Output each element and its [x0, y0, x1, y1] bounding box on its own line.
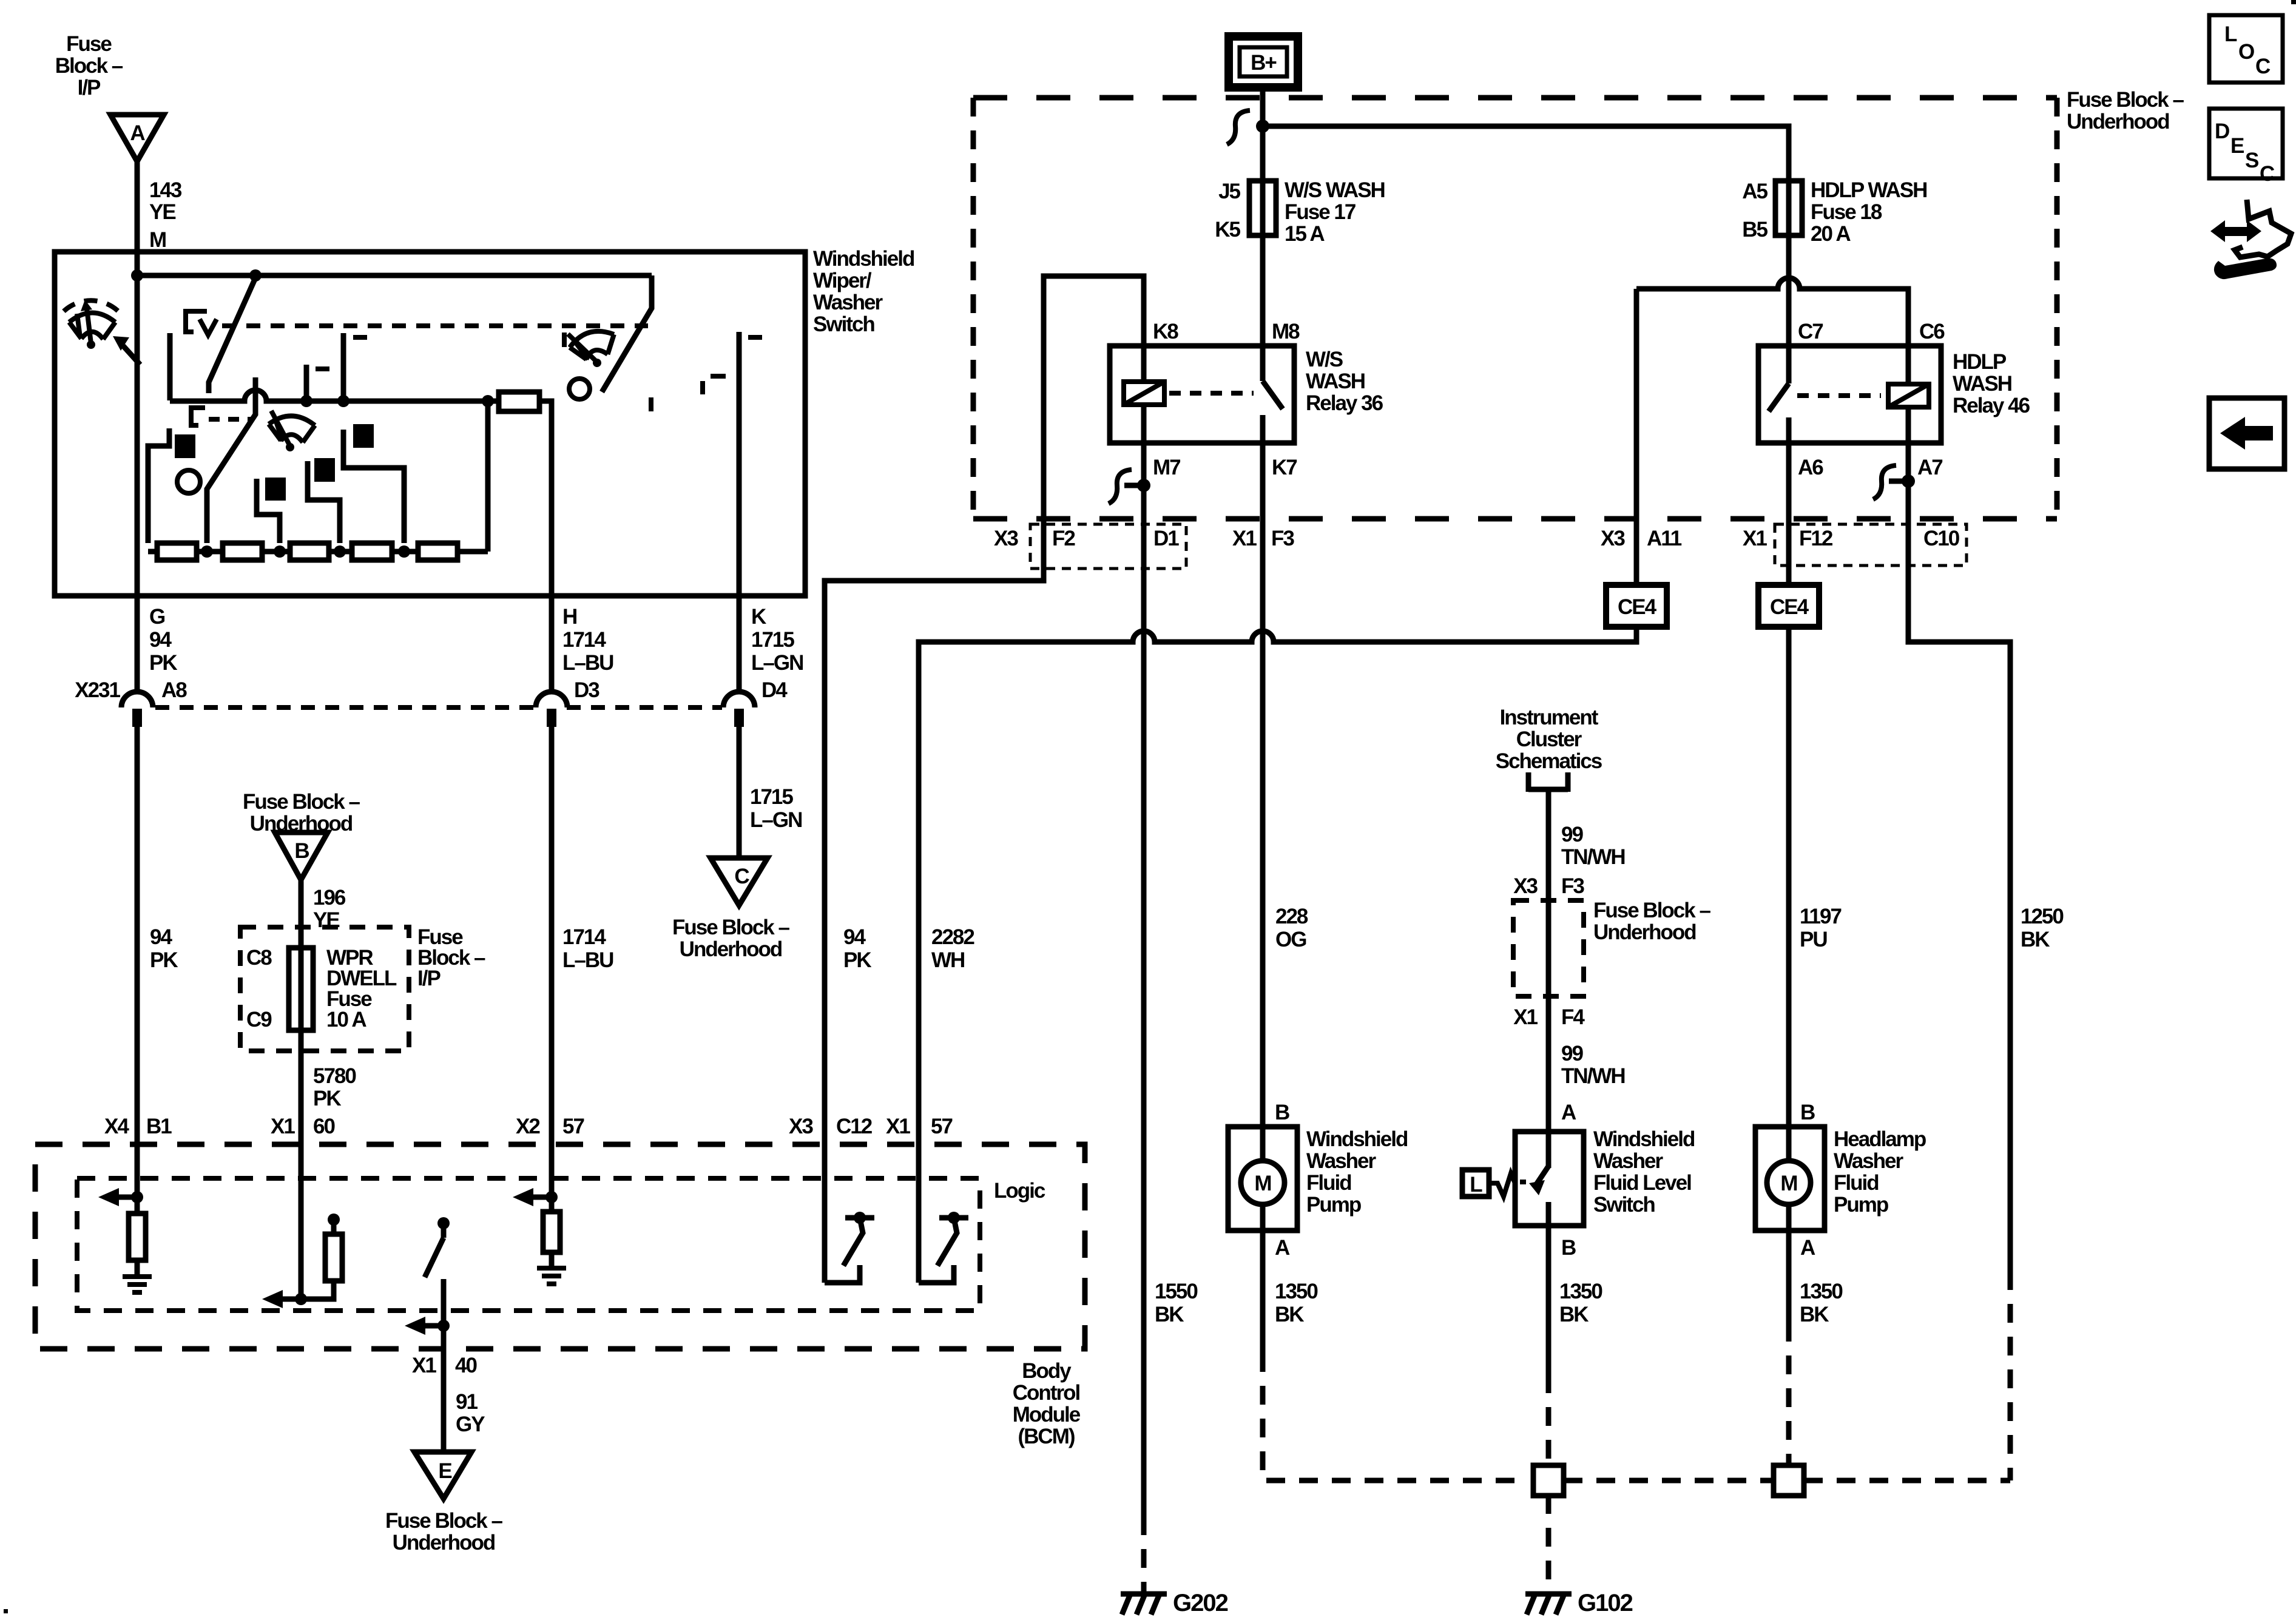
svg-text:B1: B1 [146, 1115, 172, 1138]
svg-text:F3: F3 [1271, 527, 1294, 550]
resistor chain R1 [157, 543, 197, 560]
svg-text:I/P: I/P [417, 967, 441, 990]
ground [537, 1268, 566, 1284]
svg-text:I/P: I/P [78, 76, 101, 100]
wire resistor bottom to node [301, 1281, 334, 1299]
relay 36 link dashes [1169, 391, 1254, 396]
contact stub x505 with tick [304, 365, 309, 400]
svg-text:1350: 1350 [1800, 1280, 1843, 1303]
dashed mechanical link lower [209, 417, 252, 422]
resistor chain R2 [223, 543, 262, 560]
svg-text:A6: A6 [1798, 456, 1823, 479]
fuse HDLP WASH Fuse 18 20A [1786, 181, 1792, 235]
svg-text:Fuse: Fuse [66, 32, 112, 56]
node B+ split [1256, 120, 1269, 133]
node [295, 1293, 307, 1305]
svg-text:BK: BK [2021, 928, 2050, 951]
svg-text:Washer: Washer [813, 291, 883, 314]
svg-text:1715: 1715 [750, 785, 793, 809]
dashed drop to G102 [1546, 1495, 1551, 1592]
wire resistor to H column [539, 401, 552, 596]
svg-text:X1: X1 [1743, 527, 1767, 550]
svg-text:F4: F4 [1561, 1005, 1585, 1029]
svg-text:1714: 1714 [562, 628, 606, 652]
CE4 box 1 [1606, 585, 1667, 627]
fuse WPR DWELL 10A [289, 948, 313, 1030]
svg-text:C6: C6 [1919, 320, 1945, 343]
stub with node [331, 1221, 337, 1234]
node bus x804 [482, 395, 494, 407]
svg-text:Pump: Pump [1306, 1193, 1361, 1217]
dashed ground path washer pump [1263, 1353, 1521, 1480]
svg-text:Pump: Pump [1834, 1193, 1888, 1217]
resistor [129, 1214, 146, 1260]
svg-text:Instrument: Instrument [1500, 706, 1599, 729]
svg-text:Washer: Washer [1306, 1149, 1377, 1173]
B+ terminal box [1229, 36, 1298, 87]
ground [123, 1277, 152, 1292]
svg-text:S: S [2245, 149, 2258, 172]
svg-text:1550: 1550 [1155, 1280, 1198, 1303]
headlamp washer fluid pump box [1755, 1127, 1825, 1230]
svg-text:5780: 5780 [313, 1064, 356, 1088]
svg-text:A5: A5 [1742, 180, 1768, 203]
fuse block I/P dashed box [240, 927, 409, 1051]
svg-text:Fuse 18: Fuse 18 [1811, 200, 1882, 224]
wire 94 PK down to BCM [135, 726, 140, 1144]
windshield washer fluid level switch box [1515, 1132, 1584, 1226]
svg-text:X3: X3 [1513, 874, 1538, 898]
svg-text:57: 57 [931, 1115, 952, 1138]
dashed tail of 1550 BK [1141, 1516, 1147, 1592]
connector triangle C (Fuse Block Underhood) [711, 858, 768, 905]
svg-text:X1: X1 [886, 1115, 910, 1138]
svg-text:HDLP: HDLP [1953, 350, 2007, 374]
svg-text:OG: OG [1275, 928, 1306, 951]
svg-text:Relay 46: Relay 46 [1953, 394, 2030, 417]
dashed mechanical link upper [222, 323, 648, 328]
svg-text:Logic: Logic [994, 1179, 1045, 1203]
svg-text:B5: B5 [1742, 218, 1768, 241]
svg-text:(BCM): (BCM) [1018, 1425, 1074, 1448]
svg-text:10 A: 10 A [326, 1008, 366, 1031]
svg-text:C7: C7 [1798, 320, 1823, 343]
wire chain riser to bus [485, 401, 491, 552]
connector triangle A (Fuse Block I/P) [110, 115, 164, 161]
BCM branch 40: switch [437, 1217, 450, 1229]
svg-text:D1: D1 [1153, 527, 1179, 550]
svg-text:D4: D4 [761, 678, 788, 702]
switch blade upper middle [209, 278, 255, 393]
wire middle bus with hop [170, 390, 499, 401]
pullup resistor [325, 1234, 342, 1281]
svg-text:E: E [2230, 134, 2244, 158]
arrow out left [531, 1195, 552, 1200]
svg-text:99: 99 [1561, 1042, 1583, 1065]
dashed wire pump to square [1786, 1323, 1792, 1466]
svg-text:M8: M8 [1272, 320, 1300, 343]
svg-text:C: C [2255, 55, 2271, 78]
svg-text:M7: M7 [1153, 456, 1180, 479]
svg-text:M: M [149, 228, 166, 252]
svg-text:Body: Body [1022, 1359, 1072, 1383]
svg-text:Schematics: Schematics [1496, 749, 1602, 773]
svg-text:X3: X3 [789, 1115, 813, 1138]
fuse block underhood dashed box [973, 98, 2057, 519]
svg-text:BK: BK [1800, 1303, 1829, 1326]
svg-text:X3: X3 [1601, 527, 1625, 550]
relay HDLP WASH Relay 46 box [1758, 346, 1941, 443]
svg-text:PU: PU [1800, 928, 1827, 951]
svg-text:X3: X3 [994, 527, 1018, 550]
svg-text:B: B [294, 839, 309, 863]
contact circle left low [177, 470, 200, 493]
svg-text:1715: 1715 [751, 628, 794, 652]
resistor chain R4 [352, 543, 392, 560]
svg-text:94: 94 [150, 925, 172, 949]
svg-text:L–BU: L–BU [562, 948, 613, 972]
switch blade mode select (left) [123, 346, 140, 365]
connector triangle B (Fuse Block Underhood) [275, 832, 328, 880]
wire headlamp pump A down [1786, 1230, 1792, 1323]
contact lead 4 [343, 430, 404, 543]
svg-text:Underhood: Underhood [393, 1531, 495, 1555]
svg-text:1197: 1197 [1800, 905, 1841, 928]
wire fuse18 to relay C7 [1786, 235, 1792, 346]
svg-text:M: M [1254, 1172, 1271, 1195]
LOC icon box [2209, 15, 2283, 83]
svg-text:YE: YE [149, 200, 175, 224]
svg-text:CE4: CE4 [1618, 595, 1657, 619]
svg-text:A11: A11 [1647, 527, 1682, 550]
svg-text:TN/WH: TN/WH [1561, 1064, 1625, 1088]
connector dashed box F12-C10 [1775, 524, 1967, 565]
svg-text:Fuse Block –: Fuse Block – [385, 1509, 502, 1533]
svg-text:1350: 1350 [1275, 1280, 1318, 1303]
wiper icon middle [269, 411, 315, 451]
svg-text:Fluid: Fluid [1834, 1171, 1879, 1195]
svg-text:60: 60 [313, 1115, 335, 1138]
svg-text:196: 196 [313, 886, 346, 910]
wire A6 down to CE4 [1786, 443, 1792, 585]
wire 99 TN/WH upper [1546, 789, 1551, 900]
connector triangle E (Fuse Block Underhood) [414, 1452, 471, 1499]
wire K8 feed: up, left, down [825, 276, 1144, 1144]
contact lead 3 [308, 461, 340, 543]
svg-text:W/S WASH: W/S WASH [1285, 178, 1385, 202]
position square 3 [314, 458, 335, 482]
wire through pump [1786, 1127, 1792, 1230]
wire level switch B down [1546, 1226, 1551, 1374]
arrow out left [423, 1323, 444, 1329]
svg-text:A8: A8 [161, 678, 187, 702]
svg-text:G202: G202 [1173, 1590, 1228, 1616]
position square 1 [175, 434, 195, 458]
svg-text:D: D [2215, 120, 2229, 143]
svg-text:94: 94 [149, 628, 172, 652]
dashed bus square2 to 1250BK wire [1804, 1478, 2010, 1484]
svg-text:228: 228 [1275, 905, 1308, 928]
svg-text:F3: F3 [1561, 874, 1584, 898]
svg-text:99: 99 [1561, 823, 1583, 846]
svg-text:Switch: Switch [1593, 1193, 1655, 1217]
svg-text:X1: X1 [1513, 1005, 1538, 1029]
svg-text:TN/WH: TN/WH [1561, 845, 1625, 869]
wire K column [737, 596, 742, 692]
svg-text:B+: B+ [1251, 51, 1277, 75]
connector dashed box F2-D1 [1030, 524, 1186, 569]
wire top feed bus [137, 273, 652, 279]
wire main vertical 143YE/G through switch box [135, 252, 140, 596]
svg-text:2282: 2282 [931, 925, 974, 949]
svg-text:W/S: W/S [1306, 348, 1343, 371]
splice on A7 [1889, 479, 1908, 484]
scan artifact top right [2291, 0, 2296, 4]
BCM branch B1: wire [135, 1144, 140, 1214]
motor circle M [1767, 1161, 1811, 1204]
wire 1714 L-BU down to BCM [549, 726, 555, 1144]
svg-text:Underhood: Underhood [1593, 920, 1696, 944]
cam detent symbol upper [186, 311, 207, 332]
resistor chain R5 [418, 543, 458, 560]
svg-text:K8: K8 [1153, 320, 1178, 343]
svg-text:F2: F2 [1052, 527, 1075, 550]
dashed wire to G102 bus [1546, 1374, 1551, 1466]
motor circle M [1241, 1161, 1285, 1204]
svg-text:G: G [149, 605, 165, 629]
svg-text:L: L [2224, 22, 2237, 46]
wire 1715 L-GN to triangle C [737, 726, 742, 858]
level sensor L box [1462, 1170, 1489, 1197]
svg-text:D3: D3 [574, 678, 599, 702]
svg-text:1714: 1714 [562, 925, 606, 949]
svg-text:WH: WH [931, 948, 964, 972]
wire CE4-2 down to headlamp pump [1786, 627, 1792, 1127]
svg-text:A: A [1561, 1101, 1576, 1124]
svg-text:Fuse Block –: Fuse Block – [243, 790, 360, 814]
wiper icon left (intermittent, dashed dome) [69, 308, 115, 343]
node bus x566 [337, 395, 349, 407]
position square 4 [353, 424, 374, 448]
CE4 box 2 [1758, 585, 1819, 627]
svg-text:WASH: WASH [1953, 372, 2011, 396]
svg-text:X1: X1 [271, 1115, 295, 1138]
node feed junction [131, 269, 143, 282]
svg-text:X231: X231 [75, 678, 120, 702]
svg-text:Block –: Block – [55, 54, 123, 78]
svg-text:X2: X2 [516, 1115, 540, 1138]
svg-text:C10: C10 [1923, 527, 1960, 550]
arrow out left [280, 1297, 301, 1302]
wire G column [135, 596, 140, 692]
svg-text:H: H [562, 605, 576, 629]
svg-text:Control: Control [1013, 1381, 1080, 1405]
svg-text:91: 91 [456, 1390, 478, 1414]
svg-text:C12: C12 [836, 1115, 873, 1138]
fuse W/S WASH Fuse 17 15A [1260, 181, 1266, 235]
junction square G102-1 [1533, 1465, 1564, 1496]
svg-text:Windshield: Windshield [1593, 1127, 1695, 1151]
svg-text:Windshield: Windshield [1306, 1127, 1408, 1151]
cam detent symbol lower [191, 408, 205, 425]
connector bump D3 [536, 692, 567, 727]
wire top feed to HDLP fuse [1263, 126, 1789, 181]
ground G202 [1121, 1594, 1167, 1615]
svg-text:Wiper/: Wiper/ [813, 269, 872, 292]
svg-text:O: O [2238, 40, 2254, 64]
connector bump X231/A8 [121, 692, 153, 727]
wiper icon upper right [566, 320, 622, 373]
svg-text:BK: BK [1155, 1303, 1184, 1326]
svg-text:C: C [734, 865, 749, 888]
windshield washer fluid pump box [1228, 1127, 1297, 1230]
node [545, 1191, 558, 1203]
svg-text:57: 57 [562, 1115, 584, 1138]
svg-text:L–GN: L–GN [751, 651, 803, 675]
ground G102 [1525, 1594, 1572, 1615]
svg-text:L–GN: L–GN [750, 808, 802, 832]
svg-text:94: 94 [843, 925, 866, 949]
position square 2 [265, 478, 286, 501]
splice curl at B+ node [1227, 110, 1250, 144]
svg-text:Fuse 17: Fuse 17 [1285, 200, 1356, 224]
svg-text:C: C [2260, 162, 2275, 186]
svg-text:GY: GY [456, 1413, 485, 1436]
svg-text:A: A [130, 121, 145, 145]
svg-text:Fuse Block –: Fuse Block – [2067, 88, 2184, 112]
relay 46 link dashes [1797, 393, 1881, 398]
wire B+ down [1260, 87, 1266, 181]
wire fuse17 to relay M8 [1260, 235, 1266, 346]
node bus x505 [300, 395, 312, 407]
wire A11/C6 feed [1636, 278, 1908, 346]
relay 46 switch [1786, 346, 1792, 383]
svg-text:15 A: 15 A [1285, 222, 1325, 246]
contact lead left (to chain) [148, 428, 169, 543]
svg-text:M: M [1780, 1172, 1797, 1195]
svg-text:Cluster: Cluster [1516, 727, 1582, 751]
dashed splice line X231 [155, 705, 536, 710]
svg-text:1250: 1250 [2021, 905, 2064, 928]
svg-text:Fluid Level: Fluid Level [1593, 1171, 1691, 1195]
resistor [543, 1212, 560, 1252]
svg-text:PK: PK [843, 948, 871, 972]
svg-text:X1: X1 [412, 1354, 436, 1377]
contact stub x566 with tick [341, 333, 346, 400]
node chain j2 [274, 545, 286, 558]
relay 46 coil [1888, 384, 1929, 407]
svg-text:CE4: CE4 [1770, 595, 1809, 619]
arrow out left [116, 1195, 137, 1200]
wire 196 YE [299, 880, 304, 1144]
svg-text:HDLP WASH: HDLP WASH [1811, 178, 1926, 202]
node chain j1 [201, 545, 213, 558]
misc position tick c [700, 381, 705, 394]
svg-text:Relay 36: Relay 36 [1306, 391, 1383, 415]
svg-text:E: E [438, 1459, 451, 1483]
CE4 bus with hops [919, 627, 1636, 1144]
svg-text:143: 143 [149, 178, 182, 202]
svg-text:A: A [1275, 1236, 1290, 1260]
svg-text:C8: C8 [246, 946, 272, 970]
resistor horizontal in switch [499, 392, 539, 411]
svg-text:F12: F12 [1799, 527, 1833, 550]
wire chain links [148, 549, 488, 555]
svg-text:Windshield: Windshield [813, 247, 914, 271]
node top bus junction [249, 269, 262, 282]
wire through fuse box [1546, 900, 1551, 1132]
svg-text:G102: G102 [1578, 1590, 1633, 1616]
fuse block underhood small dashed box [1513, 900, 1584, 996]
svg-text:PK: PK [149, 651, 177, 675]
BCM branch 57b input switch [916, 1144, 922, 1283]
contact stub x280 [167, 333, 173, 400]
logic dashed box [77, 1178, 980, 1311]
svg-text:B: B [1275, 1101, 1289, 1124]
svg-text:Fuse Block –: Fuse Block – [672, 916, 789, 939]
svg-text:40: 40 [455, 1354, 477, 1377]
svg-text:Module: Module [1013, 1403, 1081, 1426]
off-page bracket [1528, 772, 1568, 792]
switch blade lower (to resistor chain) [207, 377, 255, 543]
junction square G102-2 [1774, 1465, 1804, 1496]
relay 36 coil [1124, 382, 1164, 405]
wire to ground [549, 1252, 555, 1267]
K contact column [737, 332, 742, 596]
svg-text:BK: BK [1559, 1303, 1589, 1326]
svg-text:PK: PK [150, 948, 178, 972]
svg-text:1350: 1350 [1559, 1280, 1602, 1303]
svg-text:X4: X4 [104, 1115, 129, 1138]
wire washer pump A down [1260, 1230, 1266, 1353]
svg-text:A: A [1800, 1236, 1815, 1260]
svg-text:BK: BK [1275, 1303, 1304, 1326]
DESC icon box [2209, 109, 2283, 178]
svg-text:PK: PK [313, 1087, 341, 1110]
BCM branch C12 input switch [822, 1144, 828, 1283]
body control module dashed box [35, 1144, 1085, 1349]
svg-text:20 A: 20 A [1811, 222, 1851, 246]
scan artifact bottom left [4, 1609, 8, 1613]
svg-text:L–BU: L–BU [562, 651, 613, 675]
node chain j3 [334, 545, 346, 558]
node [437, 1320, 450, 1332]
dashed bus between squares [1564, 1478, 1774, 1484]
wire K7 down to washer pump [1260, 443, 1266, 1127]
svg-text:L: L [1470, 1173, 1482, 1197]
svg-text:B: B [1800, 1101, 1815, 1124]
svg-text:X1: X1 [1232, 527, 1257, 550]
svg-text:B: B [1561, 1236, 1576, 1260]
svg-text:C9: C9 [246, 1008, 272, 1031]
svg-text:A7: A7 [1917, 456, 1942, 479]
svg-text:K7: K7 [1272, 456, 1297, 479]
svg-text:K5: K5 [1215, 218, 1240, 241]
zigzag link [1489, 1173, 1515, 1197]
svg-text:K: K [751, 605, 766, 629]
wire A7 down and over [1908, 443, 2010, 1271]
svg-text:J5: J5 [1218, 180, 1240, 203]
svg-text:Washer: Washer [1834, 1149, 1904, 1173]
svg-text:Fluid: Fluid [1306, 1171, 1351, 1195]
wire 91 GY [441, 1349, 447, 1452]
level switch internals [1546, 1132, 1551, 1168]
wire M7 down (1550 BK to G202) [1141, 443, 1147, 1516]
svg-text:Underhood: Underhood [680, 937, 782, 961]
svg-text:WASH: WASH [1306, 370, 1365, 393]
connector bump D4 [723, 692, 755, 727]
misc position tick d [649, 397, 653, 411]
